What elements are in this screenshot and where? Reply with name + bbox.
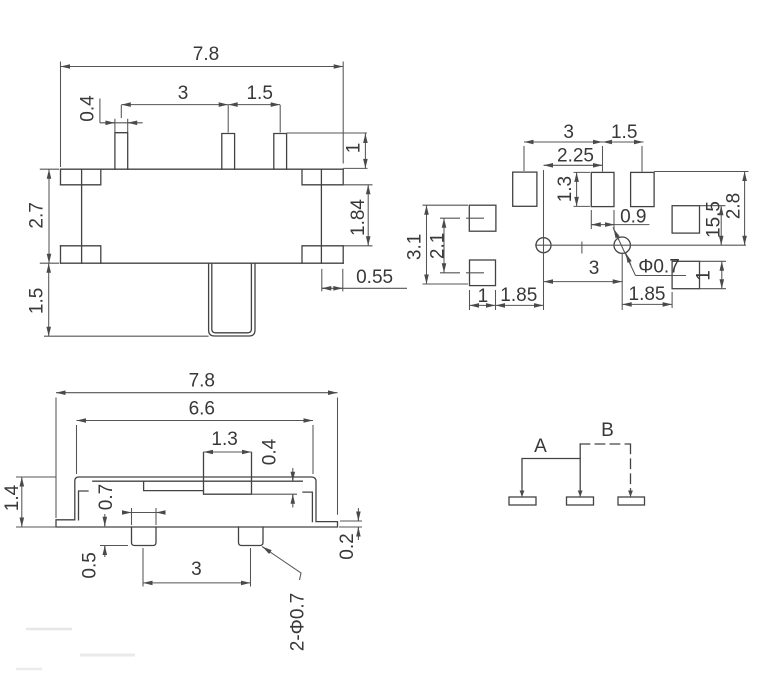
- svg-text:A: A: [534, 436, 547, 457]
- pad T1 (top row left): [513, 172, 537, 206]
- wire: position A link (pad1 to pad2): [522, 444, 580, 495]
- svg-text:3: 3: [191, 559, 202, 580]
- svg-text:1: 1: [344, 143, 365, 154]
- dimension 1.4 (overall height, side view): [16, 477, 56, 527]
- hole H1 vertical centerline: [543, 237, 545, 310]
- dimension 15.5 (pad R1 to centerline): [700, 206, 726, 246]
- dimension 1 (pad L2 width): [470, 290, 496, 310]
- cover plate lower line: [93, 480, 302, 482]
- leader for hole diameter φ0.7: [613, 228, 686, 276]
- right wall inner step: [303, 492, 312, 521]
- svg-text:15.5: 15.5: [704, 201, 725, 238]
- svg-text:1.5: 1.5: [27, 288, 48, 314]
- dimension 2.8 (pad T3 to centerline): [654, 172, 748, 246]
- terminal pad 2: [567, 497, 594, 505]
- arrow pad3: [630, 488, 632, 497]
- svg-text:0.55: 0.55: [356, 267, 393, 288]
- mounting ear bottom-left: [61, 246, 101, 263]
- center line through holes: [535, 244, 746, 246]
- svg-text:0.4: 0.4: [260, 438, 281, 465]
- dimension 7.8 (top): [61, 62, 344, 168]
- hole H2: [614, 237, 630, 253]
- dimension 7.8 (overall, side view): [56, 393, 338, 518]
- svg-text:3.1: 3.1: [405, 234, 426, 260]
- leg P2 (side view): [239, 527, 264, 546]
- svg-text:7.8: 7.8: [189, 371, 215, 392]
- pad L1 (left column upper): [469, 205, 496, 231]
- svg-text:1: 1: [478, 286, 489, 307]
- svg-text:3: 3: [563, 122, 574, 143]
- terminal pin 3 (front view): [274, 134, 287, 170]
- svg-text:Φ0.7: Φ0.7: [638, 257, 680, 278]
- svg-text:1.85: 1.85: [500, 285, 537, 306]
- svg-text:2.25: 2.25: [557, 146, 594, 167]
- dimension 1.84 (inner body height): [343, 185, 372, 246]
- dimension 2.7 (body height): [40, 169, 59, 263]
- pad T2 (top row middle): [591, 172, 614, 206]
- svg-text:2.1: 2.1: [427, 233, 448, 259]
- dimension 0.4 (pin width): [100, 99, 143, 133]
- dimension 1.85 (hole H2 to pad R2): [622, 292, 672, 308]
- dimension 6.6 (cover, side view): [77, 421, 314, 475]
- dimension 3 (hole pitch): [544, 281, 623, 283]
- svg-text:3: 3: [178, 83, 189, 104]
- dimension 2.1 (left pads centers): [440, 218, 484, 273]
- svg-text:6.6: 6.6: [189, 399, 215, 420]
- pad R1 (right column upper): [672, 206, 699, 233]
- svg-text:1: 1: [694, 270, 715, 281]
- dimension 3 (pin pitch): [121, 105, 280, 133]
- dimension 1.5 (knob protrusion): [44, 263, 209, 336]
- svg-text:B: B: [601, 420, 614, 441]
- svg-text:1.3: 1.3: [211, 429, 237, 450]
- mounting ear bottom-right: [302, 246, 343, 263]
- terminal pad 3: [618, 497, 645, 505]
- dimension 1.5 (footprint pad pitch): [603, 141, 644, 143]
- dimension 1.85 (pad L2 to hole H1): [496, 304, 544, 306]
- dimension 1.3 (pad height): [574, 172, 591, 206]
- svg-text:7.8: 7.8: [193, 44, 219, 65]
- slider knob (side view): [204, 453, 252, 495]
- center tick between holes: [581, 242, 583, 254]
- left wall inner step: [79, 491, 89, 520]
- dimension 3 (leg pitch, side view): [143, 548, 251, 587]
- svg-text:0.5: 0.5: [80, 552, 101, 578]
- terminal pin 2 (front view): [222, 134, 235, 170]
- dimension 3 (footprint pad pitch): [524, 142, 642, 172]
- dimension 0.7 (leg width, side view): [122, 508, 166, 525]
- svg-text:0.2: 0.2: [337, 533, 358, 559]
- dimension 0.9 (pad width): [591, 210, 649, 229]
- dimension 0.55 (ear overhang): [322, 269, 407, 292]
- dimension 1 (pin height): [287, 133, 368, 168]
- terminal pin 1 (front view): [115, 133, 128, 170]
- switch body outline (front view): [61, 169, 344, 263]
- svg-text:0.9: 0.9: [620, 207, 646, 228]
- hole H2 vertical extension: [621, 253, 623, 311]
- svg-text:1.5: 1.5: [611, 122, 637, 143]
- slider knob (front view): [209, 263, 255, 336]
- svg-text:1.3: 1.3: [555, 176, 576, 202]
- svg-text:1.5: 1.5: [246, 83, 272, 104]
- svg-text:1.4: 1.4: [2, 484, 23, 511]
- slider slot recess: [144, 481, 204, 490]
- arrow pad2: [579, 488, 581, 497]
- svg-text:0.4: 0.4: [77, 95, 98, 122]
- dimension 0.5 (leg protrusion, side view): [100, 514, 128, 557]
- dimension 2.25 (hole to pad): [544, 165, 603, 237]
- pad R2 (right column lower): [672, 261, 699, 288]
- dimension 3.1 (left pads outer): [423, 205, 469, 284]
- dimension 0.4 (knob depth, side view): [252, 468, 298, 508]
- housing outline (side view): [56, 477, 338, 527]
- dimension 0.2 (foot thickness, side view): [339, 508, 362, 540]
- pad T3 (top row right): [631, 172, 655, 206]
- faint scan smudges (bottom-left): [26, 628, 72, 631]
- svg-text:3: 3: [589, 258, 600, 279]
- terminal pad 1: [509, 497, 536, 505]
- svg-text:2.8: 2.8: [724, 193, 745, 219]
- svg-text:2.7: 2.7: [26, 202, 47, 228]
- hole H1: [536, 238, 551, 253]
- svg-text:0.7: 0.7: [96, 484, 117, 510]
- svg-text:1.84: 1.84: [348, 199, 369, 236]
- leader 2-φ0.7 (legs): [262, 547, 301, 581]
- svg-text:2-Φ0.7: 2-Φ0.7: [288, 593, 309, 651]
- arrow pad1: [521, 488, 523, 497]
- dimension 1 (pad R2 height): [700, 261, 727, 288]
- mounting ear top-right: [302, 169, 343, 185]
- dimension 1.3 (knob width, side view): [204, 451, 252, 453]
- wire: position B link dashed (pad2 to pad3): [580, 444, 630, 492]
- pad L2 (left column lower): [470, 260, 496, 286]
- svg-text:1.85: 1.85: [629, 284, 666, 305]
- mounting ear top-left: [61, 169, 101, 185]
- leg P1 (side view): [132, 527, 157, 546]
- dimension 1.5 (pin pitch): [228, 104, 280, 106]
